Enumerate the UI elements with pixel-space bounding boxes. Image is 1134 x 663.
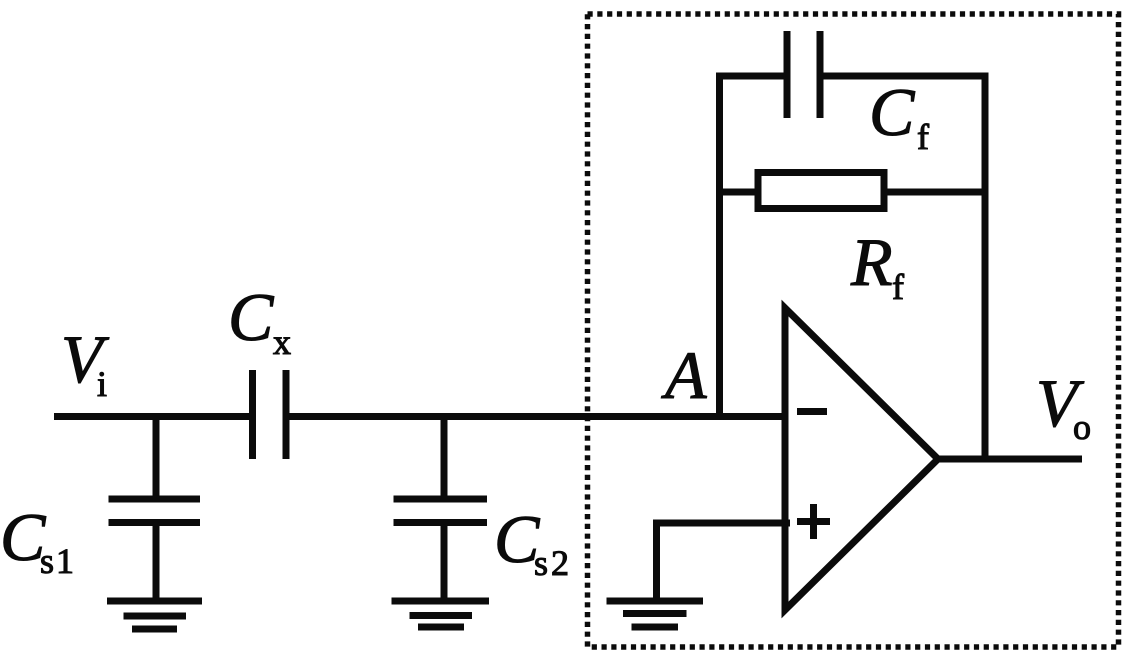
svg-text:C: C bbox=[869, 74, 915, 150]
dotted enclosure box bbox=[588, 14, 1119, 647]
svg-text:A: A bbox=[661, 337, 707, 413]
op-amp minus sign bbox=[797, 408, 827, 415]
op-amp plus sign bbox=[797, 504, 830, 539]
wire: node Vi down to Cs1 bbox=[153, 413, 160, 499]
capacitor Cx label bbox=[228, 279, 291, 362]
capacitor Cs1 bottom plate bbox=[109, 519, 201, 526]
svg-text:s1: s1 bbox=[40, 541, 76, 581]
capacitor Cs1 top plate bbox=[109, 496, 201, 503]
capacitor Cs1 label bbox=[0, 499, 76, 581]
wire: mid node down to Cs2 bbox=[441, 413, 448, 499]
wire: right lead of Rf bbox=[884, 189, 985, 196]
wire: feedback right vertical down to output bbox=[982, 73, 989, 460]
svg-text:C: C bbox=[228, 279, 274, 355]
capacitor Cx right plate bbox=[283, 370, 290, 459]
wire: Cx right plate to op-amp inverting input bbox=[284, 413, 790, 420]
wire: top feedback to Cf left plate bbox=[716, 73, 787, 80]
capacitor Cs2 bottom plate bbox=[394, 519, 488, 526]
wire: elbow vertical down to ground bbox=[653, 520, 660, 602]
resistor Rf label bbox=[850, 224, 904, 307]
capacitor Cf left plate bbox=[784, 31, 791, 118]
wire: Cs2 bottom plate to ground bbox=[441, 523, 448, 602]
node Vi label bbox=[61, 321, 110, 404]
resistor Rf body bbox=[758, 173, 884, 209]
wire: non-inverting input to ground elbow bbox=[657, 520, 791, 527]
wire: Cf right plate to right vertical bbox=[818, 73, 985, 80]
wire: Vi input to Cx left plate bbox=[54, 413, 254, 420]
svg-text:f: f bbox=[917, 117, 929, 157]
wire: feedback left vertical from node A up bbox=[716, 73, 723, 417]
svg-text:s2: s2 bbox=[534, 543, 572, 583]
capacitor Cs2 top plate bbox=[394, 496, 488, 503]
svg-text:f: f bbox=[892, 267, 904, 307]
op-amp U1 triangle bbox=[785, 308, 938, 610]
svg-text:R: R bbox=[850, 224, 893, 300]
svg-text:x: x bbox=[273, 322, 291, 362]
wire: op-amp output to Vo bbox=[935, 456, 1082, 463]
capacitor Cx left plate bbox=[249, 370, 256, 459]
ground below Cs1 bbox=[107, 601, 202, 629]
svg-text:i: i bbox=[97, 364, 107, 404]
node Vo label bbox=[1036, 365, 1091, 447]
wire: Cs1 bottom plate to ground bbox=[153, 523, 160, 602]
capacitor Cf label bbox=[869, 74, 929, 157]
capacitor Cs2 label bbox=[494, 501, 572, 583]
ground below Cs2 bbox=[392, 601, 490, 627]
capacitor Cf right plate bbox=[817, 31, 824, 118]
svg-text:o: o bbox=[1073, 407, 1091, 447]
wire: left lead of Rf bbox=[716, 189, 760, 196]
ground at non-inverting input bbox=[607, 601, 704, 627]
